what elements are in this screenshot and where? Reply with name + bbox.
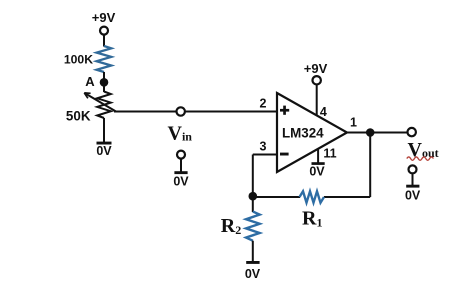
resistor R1 bbox=[300, 191, 325, 202]
svg-text:0V: 0V bbox=[245, 267, 261, 281]
wire bbox=[103, 35, 105, 47]
potentiometer 50K bbox=[84, 92, 116, 119]
svg-text:1: 1 bbox=[350, 115, 357, 129]
wire feedback horizontal bbox=[324, 196, 370, 198]
wire pin 11 bbox=[317, 149, 319, 164]
svg-text:100K: 100K bbox=[64, 53, 93, 67]
wire to R2 bbox=[252, 197, 254, 212]
svg-text:0V: 0V bbox=[96, 144, 112, 158]
junction feedback node bbox=[249, 192, 258, 201]
svg-text:50K: 50K bbox=[66, 108, 91, 123]
junction output node bbox=[366, 128, 375, 137]
terminal Vout bbox=[408, 128, 416, 136]
terminal 0V stub under Vin bbox=[173, 151, 189, 189]
svg-text:0V: 0V bbox=[173, 175, 189, 189]
ground left bbox=[97, 142, 112, 145]
svg-text:11: 11 bbox=[323, 147, 336, 161]
svg-text:+9V: +9V bbox=[304, 61, 328, 76]
svg-text:2: 2 bbox=[260, 97, 267, 111]
terminal +9V left bbox=[100, 27, 108, 35]
resistor R2 bbox=[246, 212, 260, 241]
svg-text:0V: 0V bbox=[405, 188, 421, 202]
wire output pin 1 bbox=[346, 132, 408, 134]
wire feedback vertical bbox=[369, 133, 371, 198]
resistor 100K bbox=[97, 46, 112, 72]
svg-text:0V: 0V bbox=[309, 164, 325, 178]
wire Vin to op-amp pin 2 bbox=[114, 111, 277, 113]
wire bbox=[103, 72, 105, 79]
wire pin3 down to junction bbox=[252, 155, 254, 198]
svg-text:3: 3 bbox=[260, 140, 267, 154]
wire bbox=[252, 241, 254, 262]
svg-text:A: A bbox=[85, 74, 95, 89]
terminal Vin bbox=[177, 107, 185, 115]
wire pin 3 bbox=[253, 154, 277, 156]
node A bbox=[100, 78, 109, 87]
svg-text:4: 4 bbox=[320, 105, 327, 119]
svg-text:LM324: LM324 bbox=[282, 126, 324, 141]
svg-text:+9V: +9V bbox=[92, 10, 116, 25]
ground R2 bbox=[246, 261, 259, 264]
label Vout bbox=[407, 139, 439, 161]
wire pin 4 bbox=[316, 85, 318, 117]
op-amp U1 LM324 bbox=[277, 93, 347, 172]
ground pin 11 bbox=[312, 162, 325, 165]
terminal 0V stub under Vout bbox=[405, 165, 421, 202]
terminal +9V pin4 bbox=[313, 76, 321, 84]
wire bbox=[103, 118, 105, 142]
wire bbox=[103, 86, 105, 92]
